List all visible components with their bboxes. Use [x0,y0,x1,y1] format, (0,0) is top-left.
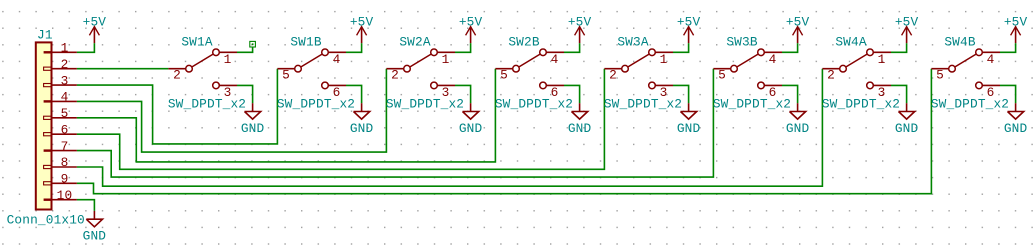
svg-text:GND: GND [786,121,810,136]
wire SW4A pin 1 to +5V [891,43,907,52]
switch SW1B (unit B of SW_DPDT_x2) [277,49,346,89]
wire SW1A pin 1 dangling end [237,47,253,52]
svg-text:SW2A: SW2A [399,34,430,49]
pin number 3 of SW2A [442,85,450,100]
svg-text:SW_DPDT_x2: SW_DPDT_x2 [495,97,573,112]
svg-text:1: 1 [878,52,886,67]
switch SW4A (unit A of SW_DPDT_x2) [822,49,891,89]
svg-text:SW_DPDT_x2: SW_DPDT_x2 [277,97,355,112]
wire J1 pin 7 to SW3B common pin 5 [77,69,714,177]
power symbol GND (below SW1B) [350,103,374,136]
reference label SW4B [944,34,975,49]
power symbol GND (near J1 pin 10) [83,211,107,244]
svg-text:5: 5 [718,67,726,82]
svg-text:SW1A: SW1A [181,34,212,49]
svg-text:2: 2 [173,67,181,82]
svg-text:GND: GND [350,121,374,136]
wire SW3A pin 1 to +5V [673,43,689,52]
svg-text:GND: GND [241,121,265,136]
svg-text:SW_DPDT_x2: SW_DPDT_x2 [822,97,900,112]
svg-text:3: 3 [61,73,69,88]
pin number 2 of SW2A [391,67,399,82]
wire SW2B pin 6 to GND [564,85,580,103]
svg-text:6: 6 [61,122,69,137]
svg-text:10: 10 [57,188,73,203]
switch SW4B (unit B of SW_DPDT_x2) [931,49,1000,89]
wire SW4B pin 6 to GND [1000,85,1016,103]
power symbol GND (below SW2A) [459,103,483,136]
pin number 6 of SW2B [551,85,559,100]
value label SW_DPDT_x2 of SW2A [386,97,464,112]
power symbol GND (below SW3A) [677,103,701,136]
svg-text:+5V: +5V [895,14,919,29]
power symbol +5V (above SW4A) [895,14,919,43]
pin number 5 of SW2B [500,67,508,82]
reference label SW3B [726,34,757,49]
wire SW2A pin 3 to GND [455,85,471,103]
connector J1 pin 1 [44,41,77,56]
power symbol GND (below SW2B) [568,103,592,136]
power symbol +5V (above SW4B) [1004,14,1028,43]
svg-text:8: 8 [61,155,69,170]
svg-text:+5V: +5V [459,14,483,29]
svg-text:GND: GND [1004,121,1028,136]
pin number 2 of SW4A [827,67,835,82]
pin number 2 of SW3A [609,67,617,82]
svg-text:SW3A: SW3A [617,34,648,49]
pin number 1 of SW1A [224,52,232,67]
svg-text:SW_DPDT_x2: SW_DPDT_x2 [713,97,791,112]
svg-text:1: 1 [660,52,668,67]
pin number 1 of SW3A [660,52,668,67]
svg-text:7: 7 [61,139,69,154]
svg-text:+5V: +5V [786,14,810,29]
connector J1 pin 2 [44,57,77,72]
wire SW3B pin 4 to +5V [782,43,798,52]
svg-text:SW2B: SW2B [508,34,539,49]
connector J1 pin 10 [44,188,77,203]
svg-text:2: 2 [609,67,617,82]
svg-text:2: 2 [61,57,69,72]
power symbol GND (below SW4B) [1004,103,1028,136]
switch SW2A (unit A of SW_DPDT_x2) [386,49,455,89]
svg-text:1: 1 [442,52,450,67]
value label SW_DPDT_x2 of SW3B [713,97,791,112]
svg-text:+5V: +5V [1004,14,1028,29]
wire J1 pin 9 to SW4B common pin 5 [77,69,932,194]
svg-text:4: 4 [987,52,995,67]
wire SW3A pin 3 to GND [673,85,689,103]
wire J1 pin 5 to SW2B common pin 5 [77,69,496,162]
reference label SW1A [181,34,212,49]
power symbol +5V (near J1 pin 1) [83,14,107,43]
wire SW2A pin 1 to +5V [455,43,471,52]
wire SW1B pin 6 to GND [346,85,362,103]
svg-text:+5V: +5V [677,14,701,29]
svg-text:SW4A: SW4A [835,34,866,49]
svg-text:2: 2 [827,67,835,82]
wire J1 pin 4 to SW2A common pin 2 [77,69,387,152]
value label SW_DPDT_x2 of SW2B [495,97,573,112]
svg-text:SW3B: SW3B [726,34,757,49]
pin number 4 of SW4B [987,52,995,67]
pin number 5 of SW1B [282,67,290,82]
connector J1 pin 8 [44,155,77,170]
wire J1 pin 3 to SW1B common pin 5 [77,69,278,144]
pin number 4 of SW2B [551,52,559,67]
pin number 3 of SW3A [660,85,668,100]
pin number 6 of SW3B [769,85,777,100]
wire SW1B pin 4 to +5V [346,43,362,52]
pin number 5 of SW3B [718,67,726,82]
connector J1 pin 9 [44,172,77,187]
value label Conn_01x10 [7,212,85,227]
wire J1 pin 6 to SW3A common pin 2 [77,69,605,170]
svg-text:2: 2 [391,67,399,82]
value label SW_DPDT_x2 of SW3A [604,97,682,112]
svg-text:+5V: +5V [350,14,374,29]
power symbol +5V (above SW2B) [568,14,592,43]
pin number 6 of SW1B [333,85,341,100]
svg-text:4: 4 [333,52,341,67]
wire J1 pin 10 to GND [77,200,95,211]
svg-text:GND: GND [459,121,483,136]
pin number 4 of SW3B [769,52,777,67]
value label SW_DPDT_x2 of SW4A [822,97,900,112]
svg-text:5: 5 [282,67,290,82]
connector J1 pin 5 [44,106,77,121]
wire J1 pin 2 to SW1A common pin 2 [77,68,168,70]
svg-text:SW_DPDT_x2: SW_DPDT_x2 [168,97,246,112]
svg-text:5: 5 [61,106,69,121]
svg-text:4: 4 [61,90,69,105]
connector J1 body [36,42,52,209]
reference label SW2B [508,34,539,49]
svg-text:1: 1 [61,41,69,56]
switch SW3B (unit B of SW_DPDT_x2) [713,49,782,89]
pin number 5 of SW4B [936,67,944,82]
reference label SW4A [835,34,866,49]
power symbol +5V (above SW1B) [350,14,374,43]
svg-text:GND: GND [895,121,919,136]
svg-text:5: 5 [500,67,508,82]
svg-text:4: 4 [551,52,559,67]
pin number 2 of SW1A [173,67,181,82]
power symbol GND (below SW4A) [895,103,919,136]
reference label SW1B [290,34,321,49]
pin number 3 of SW4A [878,85,886,100]
svg-text:4: 4 [769,52,777,67]
power symbol GND (below SW1A) [241,103,265,136]
wire SW4A pin 3 to GND [891,85,907,103]
svg-text:Conn_01x10: Conn_01x10 [7,212,85,227]
svg-text:SW_DPDT_x2: SW_DPDT_x2 [931,97,1009,112]
pin number 3 of SW1A [224,85,232,100]
pin number 1 of SW2A [442,52,450,67]
connector J1 pin 7 [44,139,77,154]
value label SW_DPDT_x2 of SW1B [277,97,355,112]
svg-text:1: 1 [224,52,232,67]
wire J1 pin 1 to +5V [77,43,95,52]
wire J1 pin 8 to SW4A common pin 2 [77,69,823,187]
switch SW2B (unit B of SW_DPDT_x2) [495,49,564,89]
wire SW2B pin 4 to +5V [564,43,580,52]
svg-text:GND: GND [83,229,107,244]
power symbol +5V (above SW3A) [677,14,701,43]
pin number 1 of SW4A [878,52,886,67]
svg-text:GND: GND [677,121,701,136]
power symbol +5V (above SW3B) [786,14,810,43]
svg-text:+5V: +5V [568,14,592,29]
svg-text:5: 5 [936,67,944,82]
pin number 4 of SW1B [333,52,341,67]
svg-text:SW_DPDT_x2: SW_DPDT_x2 [386,97,464,112]
pin number 6 of SW4B [987,85,995,100]
reference label J1 [37,27,53,42]
power symbol GND (below SW3B) [786,103,810,136]
reference label SW3A [617,34,648,49]
svg-text:9: 9 [61,172,69,187]
reference label SW2A [399,34,430,49]
svg-text:SW_DPDT_x2: SW_DPDT_x2 [604,97,682,112]
switch SW3A (unit A of SW_DPDT_x2) [604,49,673,89]
power symbol +5V (above SW2A) [459,14,483,43]
connector J1 pin 4 [44,90,77,105]
switch SW1A (unit A of SW_DPDT_x2) [168,49,237,89]
wire SW1A pin 3 to GND [237,85,253,103]
wire SW3B pin 6 to GND [782,85,798,103]
wire SW4B pin 4 to +5V [1000,43,1016,52]
svg-text:J1: J1 [37,27,53,42]
value label SW_DPDT_x2 of SW1A [168,97,246,112]
connector J1 pin 6 [44,122,77,137]
dangling-end square marker at SW1A pin 1 wire [250,41,256,47]
svg-text:SW1B: SW1B [290,34,321,49]
value label SW_DPDT_x2 of SW4B [931,97,1009,112]
svg-text:GND: GND [568,121,592,136]
connector J1 pin 3 [44,73,77,88]
svg-text:SW4B: SW4B [944,34,975,49]
svg-text:+5V: +5V [83,14,107,29]
